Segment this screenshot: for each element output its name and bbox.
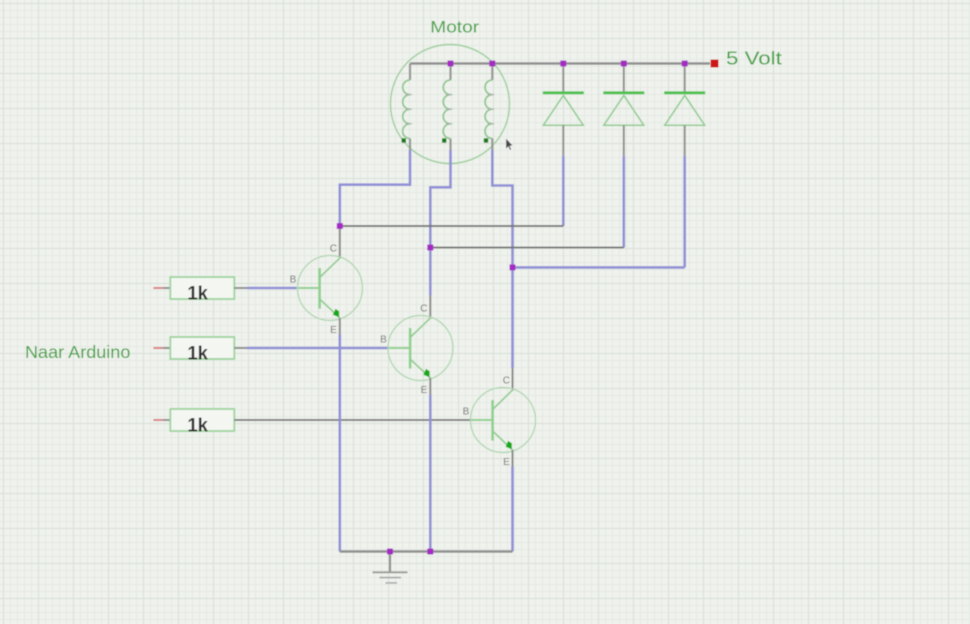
junction: Q1 collector node [337, 223, 343, 229]
svg-text:E: E [421, 385, 428, 396]
transistor Q1 [290, 243, 363, 336]
wire: R2 to Q2 base (blue) [247, 347, 388, 350]
svg-text:Naar Arduino: Naar Arduino [25, 342, 130, 362]
wire: Q3 emitter down (blue) [511, 467, 514, 552]
junction: Q2 collector node [427, 245, 433, 251]
wire: coil L2 to Q2 collector (blue) [430, 150, 450, 296]
transistor Q3 [463, 375, 536, 468]
motor coil L1 [402, 64, 413, 151]
svg-text:1k: 1k [187, 282, 208, 304]
node: 5 Volt terminal (red square) [711, 60, 719, 68]
wire: Q1 collector pin stub [339, 226, 341, 258]
junction: rail x ground [387, 549, 393, 555]
motor M1 outline circle [391, 45, 510, 164]
transistor Q2 [380, 303, 453, 396]
wire: net Q2.C to D2 (horizontal) [430, 247, 624, 249]
wire: R1 to Q1 base (blue) [247, 287, 297, 290]
diode D1 [543, 64, 584, 156]
wire: bottom ground rail [340, 550, 513, 552]
svg-text:C: C [503, 375, 510, 386]
motor coil L2 [442, 64, 453, 151]
svg-text:E: E [503, 457, 510, 468]
wire: Q1 emitter down (blue) [338, 335, 341, 552]
junction: Q3 collector node [510, 264, 516, 270]
junction: bus x D2 [621, 61, 627, 67]
resistor R2 (1k) [153, 337, 247, 364]
wire: Q3 collector pin stub [512, 368, 514, 390]
wire: coil L1 to Q1 collector (blue) [340, 150, 410, 226]
diode D2 [603, 64, 644, 156]
svg-text:B: B [290, 275, 297, 286]
svg-text:1k: 1k [187, 342, 208, 364]
junction: rail x Q2 emitter [427, 549, 433, 555]
svg-text:B: B [380, 335, 387, 346]
diode D3 [664, 64, 705, 156]
wire: D1 anode down (blue) [562, 156, 565, 226]
wire: 5V top bus [410, 62, 710, 64]
junction: bus x D3 [682, 61, 688, 67]
wire: R3 to Q3 base (gray) [234, 419, 470, 421]
motor coil L3 [484, 64, 495, 151]
wire: D3 anode down (blue) [683, 156, 686, 268]
wire: Q2 collector pin stub [429, 296, 431, 319]
svg-text:C: C [330, 243, 337, 254]
wire: net Q3.C to D3 (horizontal, blue) [513, 266, 685, 269]
svg-text:B: B [463, 407, 470, 418]
svg-text:1k: 1k [187, 414, 208, 436]
resistor R1 (1k) [153, 277, 247, 304]
junction: bus x D1 [560, 61, 566, 67]
wire: coil L3 to Q3 collector (blue) [492, 150, 512, 368]
resistor R3 (1k) [153, 409, 234, 436]
wire: D2 anode down (blue) [622, 156, 625, 248]
svg-text:5 Volt: 5 Volt [726, 47, 782, 68]
wire: net Q1.C to D1 (horizontal) [340, 225, 564, 227]
svg-text:Motor: Motor [430, 18, 479, 37]
svg-text:C: C [420, 303, 427, 314]
mouse cursor [506, 138, 513, 150]
ground symbol [373, 552, 408, 583]
wire: Q2 emitter down (blue) [429, 395, 432, 552]
svg-text:E: E [330, 325, 337, 336]
junction: bus x coil L2 [448, 61, 454, 67]
junction: bus x coil L3 [489, 61, 495, 67]
